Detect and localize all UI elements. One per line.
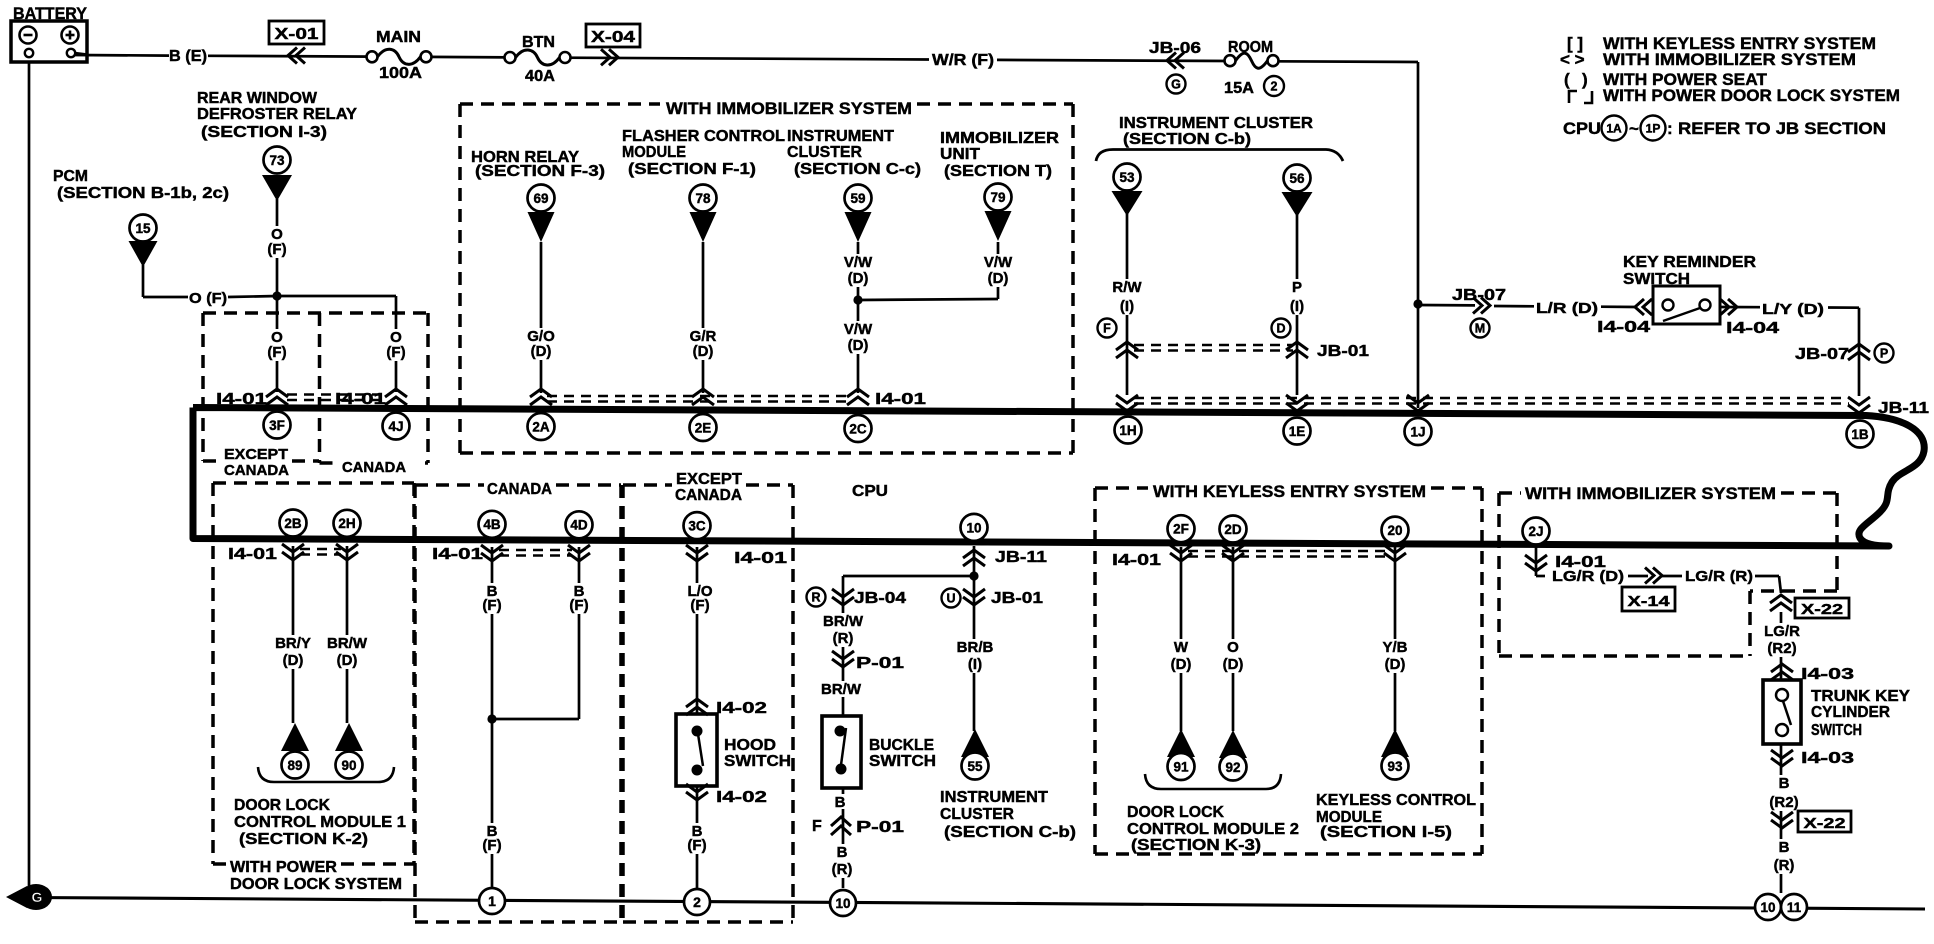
svg-text:55: 55 xyxy=(967,759,983,774)
svg-text:20: 20 xyxy=(1387,523,1402,538)
svg-text:R: R xyxy=(811,591,820,605)
svg-text:L/Y (D): L/Y (D) xyxy=(1762,301,1824,318)
svg-text:U: U xyxy=(946,592,955,606)
svg-text:MAIN: MAIN xyxy=(376,29,421,46)
svg-text:CLUSTER: CLUSTER xyxy=(787,144,862,161)
svg-text:B: B xyxy=(835,794,846,811)
svg-text:UNIT: UNIT xyxy=(940,146,980,163)
svg-text:10: 10 xyxy=(835,896,850,911)
svg-text:CONTROL MODULE 1: CONTROL MODULE 1 xyxy=(234,814,406,831)
svg-text:(R2): (R2) xyxy=(1767,640,1796,657)
svg-text:SWITCH: SWITCH xyxy=(869,753,936,770)
svg-text:F: F xyxy=(812,818,822,835)
svg-text:(D): (D) xyxy=(848,337,869,354)
svg-text:(D): (D) xyxy=(693,343,714,360)
svg-text:IMMOBILIZER: IMMOBILIZER xyxy=(940,130,1060,147)
svg-text:(D): (D) xyxy=(337,652,358,669)
svg-text:WITH IMMOBILIZER SYSTEM: WITH IMMOBILIZER SYSTEM xyxy=(666,99,912,118)
svg-text:1H: 1H xyxy=(1119,423,1136,438)
svg-text:CPU: CPU xyxy=(1563,119,1601,138)
svg-text:3C: 3C xyxy=(688,518,706,533)
svg-text:(F): (F) xyxy=(482,837,501,854)
svg-text:I4-04: I4-04 xyxy=(1726,320,1779,337)
svg-text:2J: 2J xyxy=(1528,524,1543,539)
svg-text:79: 79 xyxy=(990,190,1005,205)
svg-text:D: D xyxy=(1276,322,1285,336)
svg-text:JB-11: JB-11 xyxy=(1878,400,1929,417)
svg-text:WITH POWER: WITH POWER xyxy=(230,859,337,876)
svg-text:CANADA: CANADA xyxy=(342,459,406,476)
svg-text:P-01: P-01 xyxy=(856,819,904,836)
svg-text:(I): (I) xyxy=(1290,298,1304,315)
svg-text:(SECTION F-3): (SECTION F-3) xyxy=(475,163,605,180)
svg-text:4D: 4D xyxy=(570,518,588,533)
svg-text:(F): (F) xyxy=(690,597,709,614)
svg-text:G: G xyxy=(1171,78,1181,92)
svg-text:EXCEPT: EXCEPT xyxy=(224,446,288,463)
svg-text:(I): (I) xyxy=(968,656,982,673)
svg-text:B: B xyxy=(1779,839,1790,856)
svg-text:HOOD: HOOD xyxy=(724,737,776,754)
svg-text:1P: 1P xyxy=(1646,121,1661,135)
svg-text:WITH POWER DOOR LOCK SYSTEM: WITH POWER DOOR LOCK SYSTEM xyxy=(1603,86,1900,105)
svg-text:2D: 2D xyxy=(1224,522,1242,537)
svg-text:(I): (I) xyxy=(1120,298,1134,315)
svg-text:BR/B: BR/B xyxy=(957,639,994,656)
svg-text:V/W: V/W xyxy=(844,254,873,271)
svg-text:(R): (R) xyxy=(1774,857,1795,874)
svg-text:(: ( xyxy=(1564,70,1570,89)
svg-text:1E: 1E xyxy=(1289,424,1306,439)
svg-text:CANADA: CANADA xyxy=(675,487,742,504)
svg-text:(D): (D) xyxy=(988,270,1009,287)
svg-text:40A: 40A xyxy=(525,68,555,85)
svg-text:(SECTION F-1): (SECTION F-1) xyxy=(628,161,756,178)
svg-text:DEFROSTER RELAY: DEFROSTER RELAY xyxy=(197,106,357,123)
svg-text:2E: 2E xyxy=(695,420,712,435)
svg-text:I4-01: I4-01 xyxy=(216,391,267,408)
svg-text:I4-01: I4-01 xyxy=(734,550,787,567)
svg-text:I4-02: I4-02 xyxy=(716,700,767,717)
svg-text:JB-01: JB-01 xyxy=(991,590,1043,607)
svg-text:CANADA: CANADA xyxy=(224,462,289,479)
svg-text:X-14: X-14 xyxy=(1628,593,1671,610)
svg-text:I4-03: I4-03 xyxy=(1801,666,1854,683)
svg-text:(SECTION C-b): (SECTION C-b) xyxy=(1123,131,1251,148)
svg-text:(D): (D) xyxy=(1171,656,1192,673)
svg-text:(D): (D) xyxy=(283,652,304,669)
svg-text:53: 53 xyxy=(1119,170,1135,185)
svg-text:(D): (D) xyxy=(1385,656,1406,673)
svg-text:11: 11 xyxy=(1787,900,1802,915)
svg-text:1A: 1A xyxy=(1606,121,1622,135)
svg-text:1: 1 xyxy=(488,893,496,909)
svg-text:JB-07: JB-07 xyxy=(1795,346,1849,363)
svg-text:I4-03: I4-03 xyxy=(1801,750,1854,767)
svg-text:REFER TO JB SECTION: REFER TO JB SECTION xyxy=(1678,119,1886,138)
svg-text:I4-01: I4-01 xyxy=(432,546,483,563)
svg-text:I4-01: I4-01 xyxy=(1112,552,1161,569)
svg-text:2: 2 xyxy=(1271,80,1278,94)
svg-text:SWITCH: SWITCH xyxy=(724,753,791,770)
svg-text:(F): (F) xyxy=(482,597,501,614)
svg-text:93: 93 xyxy=(1387,759,1403,774)
svg-text:X-22: X-22 xyxy=(1801,601,1843,618)
svg-text:X-22: X-22 xyxy=(1804,815,1846,832)
svg-text:I4-01: I4-01 xyxy=(335,391,386,408)
svg-text:BR/W: BR/W xyxy=(327,635,368,652)
svg-text:F: F xyxy=(1103,322,1111,336)
svg-text:(F): (F) xyxy=(687,837,706,854)
svg-text:WITH IMMOBILIZER SYSTEM: WITH IMMOBILIZER SYSTEM xyxy=(1525,484,1776,503)
svg-text:DOOR LOCK: DOOR LOCK xyxy=(1127,804,1224,821)
svg-text:56: 56 xyxy=(1289,171,1305,186)
svg-text:B: B xyxy=(1779,775,1790,792)
svg-text:BTN: BTN xyxy=(522,34,555,51)
svg-text:Y/B: Y/B xyxy=(1382,639,1407,656)
svg-text:TRUNK KEY: TRUNK KEY xyxy=(1811,688,1910,705)
svg-text:JB-04: JB-04 xyxy=(854,590,906,607)
svg-text:PCM: PCM xyxy=(53,168,88,185)
svg-text:59: 59 xyxy=(850,191,865,206)
svg-text:4J: 4J xyxy=(388,419,403,434)
svg-text:(R2): (R2) xyxy=(1769,794,1798,811)
svg-text:(F): (F) xyxy=(569,597,588,614)
svg-text:LG/R: LG/R xyxy=(1764,623,1800,640)
svg-text:DOOR LOCK: DOOR LOCK xyxy=(234,797,330,814)
svg-text:73: 73 xyxy=(269,153,285,168)
svg-text:KEY REMINDER: KEY REMINDER xyxy=(1623,254,1756,271)
svg-text:ROOM: ROOM xyxy=(1228,39,1273,56)
svg-text:1B: 1B xyxy=(1851,427,1869,442)
svg-text:(R): (R) xyxy=(833,630,854,647)
svg-text:X-04: X-04 xyxy=(591,29,635,46)
svg-text:): ) xyxy=(1582,70,1588,89)
svg-text:(D): (D) xyxy=(531,343,552,360)
svg-text:3F: 3F xyxy=(269,418,285,433)
svg-text:O: O xyxy=(1227,639,1239,656)
svg-text:2F: 2F xyxy=(1173,522,1189,537)
svg-text:V/W: V/W xyxy=(984,254,1013,271)
svg-text:INSTRUMENT: INSTRUMENT xyxy=(940,789,1048,806)
svg-text:CLUSTER: CLUSTER xyxy=(940,806,1014,823)
svg-text:INSTRUMENT CLUSTER: INSTRUMENT CLUSTER xyxy=(1119,115,1313,132)
svg-text:I4-02: I4-02 xyxy=(716,789,767,806)
svg-text:(SECTION T): (SECTION T) xyxy=(944,163,1052,180)
svg-text:(SECTION C-b): (SECTION C-b) xyxy=(944,824,1076,841)
svg-text:I4-01: I4-01 xyxy=(875,391,926,408)
svg-text:90: 90 xyxy=(341,758,356,773)
svg-text:JB-01: JB-01 xyxy=(1317,343,1369,360)
svg-text:(F): (F) xyxy=(386,344,405,361)
svg-text:2C: 2C xyxy=(849,421,867,436)
svg-text:X-01: X-01 xyxy=(275,26,319,43)
svg-text:REAR WINDOW: REAR WINDOW xyxy=(197,90,318,107)
svg-text:BR/W: BR/W xyxy=(823,613,864,630)
svg-text:L/R (D): L/R (D) xyxy=(1536,300,1598,317)
svg-text:~: ~ xyxy=(1629,119,1639,138)
svg-text:15: 15 xyxy=(135,221,151,236)
svg-text:JB-11: JB-11 xyxy=(995,549,1047,566)
svg-text:P: P xyxy=(1292,279,1302,296)
svg-text:(SECTION K-2): (SECTION K-2) xyxy=(239,831,368,848)
svg-text:2A: 2A xyxy=(532,419,550,434)
svg-text:W/R (F): W/R (F) xyxy=(932,52,994,69)
svg-text:69: 69 xyxy=(533,191,548,206)
svg-text:(R): (R) xyxy=(832,861,853,878)
svg-text:BATTERY: BATTERY xyxy=(13,4,88,23)
svg-text:KEYLESS CONTROL: KEYLESS CONTROL xyxy=(1316,792,1476,809)
svg-text:R/W: R/W xyxy=(1112,279,1142,296)
svg-text:WITH KEYLESS ENTRY SYSTEM: WITH KEYLESS ENTRY SYSTEM xyxy=(1153,482,1426,501)
svg-text:(D): (D) xyxy=(848,270,869,287)
svg-text:I4-01: I4-01 xyxy=(228,546,277,563)
svg-text:10: 10 xyxy=(966,520,981,535)
svg-text:V/W: V/W xyxy=(844,321,873,338)
svg-text:WITH IMMOBILIZER SYSTEM: WITH IMMOBILIZER SYSTEM xyxy=(1603,50,1856,69)
svg-text:BR/Y: BR/Y xyxy=(275,635,311,652)
svg-text:P-01: P-01 xyxy=(856,655,904,672)
svg-text:(SECTION B-1b, 2c): (SECTION B-1b, 2c) xyxy=(57,185,229,202)
svg-text:(SECTION I-3): (SECTION I-3) xyxy=(201,124,327,141)
svg-text:92: 92 xyxy=(1225,760,1240,775)
svg-text:G: G xyxy=(32,889,43,905)
svg-text::: : xyxy=(1667,119,1673,138)
svg-text:(SECTION C-c): (SECTION C-c) xyxy=(794,161,921,178)
svg-text:I4-04: I4-04 xyxy=(1597,319,1650,336)
svg-text:CONTROL MODULE 2: CONTROL MODULE 2 xyxy=(1127,821,1299,838)
svg-text:78: 78 xyxy=(695,191,711,206)
svg-text:EXCEPT: EXCEPT xyxy=(676,471,742,488)
svg-text:(SECTION K-3): (SECTION K-3) xyxy=(1131,837,1261,854)
svg-text:B: B xyxy=(837,844,848,861)
svg-text:4B: 4B xyxy=(483,517,501,532)
svg-text:MODULE: MODULE xyxy=(622,144,686,161)
svg-text:10: 10 xyxy=(1760,900,1775,915)
svg-text:SWITCH: SWITCH xyxy=(1811,722,1862,739)
svg-text:CYLINDER: CYLINDER xyxy=(1811,704,1890,721)
svg-text:BUCKLE: BUCKLE xyxy=(869,737,934,754)
svg-text:15A: 15A xyxy=(1224,80,1254,97)
svg-text:P: P xyxy=(1880,347,1888,361)
svg-text:2: 2 xyxy=(693,894,701,910)
svg-text:(D): (D) xyxy=(1223,656,1244,673)
svg-text:INSTRUMENT: INSTRUMENT xyxy=(787,128,894,145)
svg-text:B (E): B (E) xyxy=(169,48,207,65)
svg-text:CANADA: CANADA xyxy=(487,481,552,498)
svg-text:2H: 2H xyxy=(338,516,355,531)
svg-text:1J: 1J xyxy=(1410,424,1425,439)
svg-text:BR/W: BR/W xyxy=(821,681,862,698)
svg-text:< >: < > xyxy=(1560,50,1585,69)
svg-text:LG/R (R): LG/R (R) xyxy=(1685,568,1753,585)
svg-text:M: M xyxy=(1475,322,1485,336)
svg-text:DOOR LOCK SYSTEM: DOOR LOCK SYSTEM xyxy=(230,876,402,893)
svg-text:89: 89 xyxy=(287,758,302,773)
svg-text:(SECTION I-5): (SECTION I-5) xyxy=(1320,824,1452,841)
svg-text:91: 91 xyxy=(1173,759,1189,774)
svg-text:LG/R (D): LG/R (D) xyxy=(1552,568,1624,585)
svg-text:W: W xyxy=(1174,639,1189,656)
svg-text:100A: 100A xyxy=(379,65,423,82)
svg-text:2B: 2B xyxy=(284,516,302,531)
svg-text:O (F): O (F) xyxy=(189,290,227,307)
svg-text:FLASHER CONTROL: FLASHER CONTROL xyxy=(622,128,785,145)
svg-text:CPU: CPU xyxy=(852,483,888,500)
svg-text:(F): (F) xyxy=(267,241,286,258)
svg-text:(F): (F) xyxy=(267,344,286,361)
